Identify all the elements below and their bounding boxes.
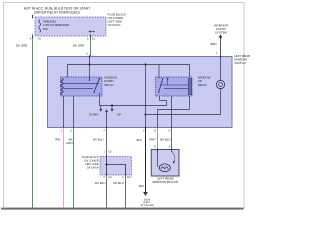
svg-text:DK BLU: DK BLU bbox=[93, 137, 103, 141]
svg-text:RELAY: RELAY bbox=[198, 83, 207, 87]
svg-text:BRN: BRN bbox=[211, 42, 217, 46]
svg-text:E: E bbox=[86, 52, 88, 55]
svg-text:A: A bbox=[168, 130, 170, 133]
svg-text:D4: D4 bbox=[108, 176, 112, 179]
svg-text:LB: LB bbox=[108, 150, 111, 153]
svg-text:(WIPER RELAY ENERGIZED): (WIPER RELAY ENERGIZED) bbox=[34, 11, 80, 15]
svg-text:C: C bbox=[103, 176, 105, 179]
svg-text:A: A bbox=[168, 145, 170, 148]
svg-text:DK GRN: DK GRN bbox=[73, 44, 84, 48]
svg-text:UP: UP bbox=[117, 113, 121, 117]
svg-text:"B" PILLAR): "B" PILLAR) bbox=[140, 204, 154, 207]
svg-text:OF DASH: OF DASH bbox=[108, 23, 121, 27]
svg-text:25A: 25A bbox=[43, 27, 48, 31]
svg-text:D17: D17 bbox=[127, 176, 132, 179]
svg-text:WINDOW MOTOR: WINDOW MOTOR bbox=[152, 180, 179, 184]
svg-text:C6: C6 bbox=[38, 38, 42, 41]
svg-text:K: K bbox=[30, 38, 32, 41]
svg-text:B: B bbox=[154, 145, 156, 148]
svg-text:E: E bbox=[71, 130, 73, 133]
svg-text:DOWN: DOWN bbox=[89, 113, 98, 117]
svg-text:DK BLU: DK BLU bbox=[95, 181, 105, 185]
svg-text:DK GRN: DK GRN bbox=[16, 44, 27, 48]
svg-text:SWITCH: SWITCH bbox=[234, 61, 245, 65]
svg-text:BLK: BLK bbox=[139, 184, 145, 188]
svg-text:DK BLU: DK BLU bbox=[160, 137, 170, 141]
svg-text:WHT: WHT bbox=[149, 137, 156, 141]
svg-text:DK BLU: DK BLU bbox=[113, 181, 123, 185]
svg-text:BLK: BLK bbox=[137, 138, 143, 142]
svg-text:RELAY: RELAY bbox=[104, 83, 113, 87]
svg-text:C: C bbox=[143, 130, 145, 133]
svg-text:OF DASH: OF DASH bbox=[87, 167, 99, 170]
svg-text:C: C bbox=[87, 38, 89, 41]
svg-text:PPL: PPL bbox=[55, 137, 61, 141]
svg-text:B: B bbox=[154, 130, 156, 133]
svg-text:SYSTEM: SYSTEM bbox=[215, 30, 227, 34]
svg-text:P: P bbox=[104, 130, 106, 133]
svg-text:C: C bbox=[122, 176, 124, 179]
svg-text:GRN: GRN bbox=[66, 141, 72, 145]
svg-text:C1: C1 bbox=[92, 38, 96, 41]
